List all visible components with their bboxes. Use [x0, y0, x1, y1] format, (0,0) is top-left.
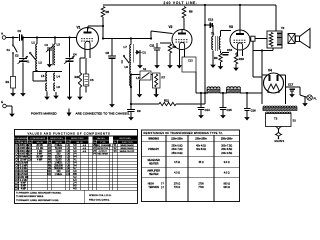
pilot lamp PL: [307, 95, 317, 101]
label chassis note right: [76, 111, 131, 115]
resistor R4: [75, 73, 82, 88]
wire V4 right vertical: [285, 75, 287, 104]
inductor L5b: [46, 83, 47, 91]
wire S1 to R1: [12, 54, 14, 77]
svg-text:D1: D1: [143, 51, 147, 55]
wire C2 to ground: [22, 63, 24, 90]
node L7 top: [130, 37, 132, 39]
transformer T3 secondary windings: [263, 106, 297, 107]
wire coil common bus: [33, 71, 62, 73]
wire C3 bottom lead: [49, 50, 51, 63]
capacitor C9: [127, 109, 141, 113]
svg-text:L7: L7: [124, 45, 128, 49]
svg-text:RESISTORS: RESISTORS: [71, 138, 84, 140]
node C4 tap: [68, 36, 70, 38]
svg-text:RESISTORS: RESISTORS: [50, 138, 63, 140]
svg-text:1 MEG.: 1 MEG.: [55, 174, 63, 176]
svg-text:8 MF: 8 MF: [37, 154, 43, 156]
svg-text:1 MEG.: 1 MEG.: [55, 162, 63, 164]
svg-text:1 MF: 1 MF: [37, 151, 43, 153]
svg-text:ARE CONNECTED TO THE CHASSIS.: ARE CONNECTED TO THE CHASSIS.: [76, 111, 131, 115]
valve V3: [229, 25, 250, 56]
svg-text:9.0 Ω: 9.0 Ω: [224, 161, 230, 164]
svg-text:230v 6.0Ω: 230v 6.0Ω: [172, 145, 183, 148]
svg-text:T1 PRIMARY 1,500Ω. SECONDARY: T1 PRIMARY 1,500Ω. SECONDARY 60,000Ω.: [16, 192, 62, 195]
wire L1 top lead: [36, 38, 38, 45]
wire choke bus left: [196, 92, 208, 94]
inductor L6 osc: [130, 76, 140, 86]
wire aerial to C1: [6, 37, 19, 39]
svg-text:C2: C2: [15, 54, 19, 58]
choke L9: [207, 87, 220, 93]
terminal A: [1, 32, 6, 40]
transformer T1 core: [211, 32, 217, 52]
wire V1 cathode to R4: [80, 57, 85, 59]
wire R10 stem2: [235, 53, 237, 55]
svg-text:T2: T2: [281, 26, 285, 30]
wire rail to smoothing: [204, 5, 206, 104]
svg-text:5,000: 5,000: [56, 160, 63, 162]
svg-text:250,000: 250,000: [54, 165, 63, 167]
svg-text:230v 8.5Ω: 230v 8.5Ω: [221, 148, 232, 151]
wire T1 sec bottom: [220, 51, 222, 54]
svg-text:HEATER: HEATER: [149, 173, 159, 176]
svg-text:FIELD COIL 5,000 Ω.: FIELD COIL 5,000 Ω.: [89, 199, 110, 201]
capacitor C15 electrolytic: [220, 108, 233, 113]
wire R6 to V2: [183, 18, 185, 30]
ground below L5: [44, 92, 50, 101]
wire R5 to V1 anode node: [102, 17, 104, 39]
svg-text:50 MF: 50 MF: [36, 157, 43, 159]
wire coil loop left: [32, 72, 34, 82]
table resistances of transformer windings: [142, 130, 240, 202]
ground below R8: [167, 62, 173, 69]
capacitor C2 tuning: [15, 54, 28, 64]
svg-text:HIGH: HIGH: [148, 182, 154, 185]
svg-text:4.5 Ω: 4.5 Ω: [174, 161, 180, 164]
wire choke link: [220, 92, 227, 94]
chassis note ground glyph: [67, 109, 72, 117]
capacitor C17: [288, 83, 295, 92]
trimmer capacitor C3: [45, 43, 54, 52]
svg-text:220v-230v: 220v-230v: [171, 138, 183, 141]
svg-text:T3 PRIMARY 1,050Ω. SECONDARY: T3 PRIMARY 1,050Ω. SECONDARY 0.15Ω.: [16, 199, 59, 202]
label T2: [281, 26, 285, 30]
switch S1: [7, 38, 18, 55]
svg-text:L6: L6: [57, 85, 61, 89]
switch S2: [140, 67, 151, 80]
terminal E: [1, 100, 6, 108]
resistor R11: [159, 98, 176, 105]
ground below C3: [47, 63, 53, 68]
capacitor C16 electrolytic: [244, 109, 256, 113]
svg-text:C5: C5: [106, 51, 110, 55]
svg-text:WAVE RANGE: WAVE RANGE: [120, 147, 134, 150]
transformer T1 primary: [212, 37, 213, 50]
wire C6 bottom: [85, 86, 87, 93]
ground below C14: [198, 113, 204, 119]
resistor R6: [182, 7, 193, 19]
wire C4 to ground: [69, 63, 71, 93]
node C15: [222, 92, 224, 94]
svg-text:C15: C15: [227, 108, 233, 112]
node V1 anode: [102, 37, 104, 39]
node T2 loop V4 feed: [261, 49, 263, 51]
wire V3 grid side: [255, 38, 259, 40]
wire V4 top right: [281, 74, 286, 76]
wire HT to T1: [205, 24, 213, 26]
wire 240V supply rail: [103, 4, 276, 6]
svg-text:S1: S1: [27, 61, 31, 64]
ground below C2: [20, 89, 26, 97]
inductor L8: [125, 64, 132, 74]
ground below R10: [233, 64, 239, 71]
svg-text:R11: R11: [164, 98, 169, 102]
svg-text:8 MF: 8 MF: [21, 186, 27, 188]
wire coil loop bottom: [33, 80, 47, 82]
ground T1 secondary: [218, 63, 224, 70]
switch wave-change S2a: [122, 55, 130, 63]
loudspeaker driver: [288, 34, 295, 44]
svg-text:50,000: 50,000: [55, 148, 63, 150]
capacitor C11: [150, 44, 161, 51]
node L1 top: [36, 36, 38, 38]
wire T1 primary top: [212, 25, 214, 37]
wire V3 grid to T2: [255, 38, 267, 40]
svg-text:0.1 MF: 0.1 MF: [20, 168, 28, 170]
capacitor C5: [106, 51, 117, 58]
svg-text:0.01 MF: 0.01 MF: [19, 171, 28, 173]
svg-text:CONDENSERS: CONDENSERS: [14, 138, 30, 140]
transformer T1 secondary: [219, 37, 220, 50]
switch wave-change contact L1: [27, 52, 36, 63]
svg-text:C16: C16: [15, 188, 20, 191]
ground below C4: [67, 93, 73, 101]
grid cap V3: [251, 36, 255, 41]
svg-text:R7: R7: [162, 76, 166, 80]
svg-text:VALVES: VALVES: [97, 137, 106, 140]
wire V3 grid drop: [252, 41, 254, 77]
node R5 anode: [102, 25, 104, 27]
svg-text:S3: S3: [293, 119, 297, 123]
svg-text:VALUES AND FUNCTIONS OF COMPON: VALUES AND FUNCTIONS OF COMPONENTS: [27, 132, 110, 136]
svg-text:V3: V3: [229, 25, 233, 29]
svg-text:L3: L3: [57, 43, 61, 47]
svg-text:C13: C13: [188, 60, 193, 63]
svg-text:R10: R10: [239, 57, 245, 61]
wire C13 to bus: [195, 72, 197, 93]
resistor R10: [234, 55, 244, 64]
ground below R7: [153, 89, 159, 98]
svg-text:C16: C16: [251, 109, 257, 113]
svg-text:A-B: A-B: [83, 147, 87, 150]
svg-text:20,000: 20,000: [55, 157, 63, 159]
wire AVC bus right: [176, 103, 205, 105]
node C14: [200, 92, 202, 94]
ground below R1: [10, 88, 16, 97]
wire R7 top: [151, 74, 153, 76]
ground below S2: [137, 89, 143, 98]
capacitor C14 electrolytic: [198, 108, 211, 113]
transformer T2 primary winding: [269, 33, 273, 47]
ground below lamp: [302, 100, 308, 107]
wire V2 grid left: [160, 42, 171, 44]
capacitor C4 tuning: [64, 53, 77, 64]
ground T1 primary: [210, 61, 216, 69]
wire lamp feed: [300, 95, 307, 97]
svg-text:A-B: A-B: [83, 150, 87, 153]
wire HT out: [286, 86, 301, 88]
wire sec bottom link: [220, 61, 222, 64]
wire T1 sec to V3 grid: [221, 30, 232, 32]
svg-text:4 MF: 4 MF: [37, 160, 43, 162]
wire S2 ground stem: [139, 80, 141, 89]
ground below C16: [244, 114, 250, 121]
wire R10 link: [236, 52, 237, 54]
mains twisted pair: [276, 127, 282, 140]
wire V1 anode top: [87, 26, 89, 30]
wire IF to V2 grid riser: [150, 31, 152, 39]
choke L10 speaker field: [227, 87, 241, 93]
svg-text:{ 1: { 1: [161, 182, 164, 185]
capacitor C1: [18, 29, 22, 41]
svg-text:C11: C11: [150, 44, 155, 48]
valve V1: [77, 26, 99, 59]
wire R4 to ground: [79, 88, 81, 93]
label chassis note left: [31, 111, 57, 115]
svg-text:C12: C12: [208, 18, 214, 22]
svg-text:E: E: [1, 100, 3, 104]
svg-text:R1: R1: [6, 80, 10, 84]
wire L7 top lead: [130, 39, 132, 45]
svg-text:C6: C6: [90, 78, 94, 82]
svg-text:S1: S1: [7, 48, 11, 52]
svg-text:45 Ω: 45 Ω: [198, 161, 203, 164]
svg-text:WINDING: WINDING: [148, 138, 159, 141]
wire T2 loop up: [272, 48, 274, 51]
svg-text:DETECTOR: DETECTOR: [97, 148, 109, 150]
wire AVC bus: [131, 103, 159, 105]
svg-text:L5: L5: [136, 76, 140, 80]
svg-text:770 Ω: 770 Ω: [174, 186, 181, 189]
wire R8 ground stem: [169, 53, 171, 62]
node AVC C9: [130, 103, 132, 105]
wire C5 drop: [111, 39, 113, 56]
svg-text:MAINS ON-OFF: MAINS ON-OFF: [120, 150, 135, 153]
svg-text:2 MEG.: 2 MEG.: [55, 145, 63, 147]
wire C15 stem: [222, 93, 224, 107]
svg-text:A-B: A-B: [83, 144, 87, 147]
node HT junction: [204, 24, 206, 26]
node osc coil bottom: [130, 86, 132, 88]
transformer T3 primary box: [266, 114, 297, 127]
svg-text:0.1 MF: 0.1 MF: [36, 148, 44, 150]
svg-text:R6: R6: [189, 10, 193, 14]
ground below C15: [220, 113, 226, 119]
svg-text:A: A: [1, 32, 3, 36]
wire C6 top: [85, 58, 87, 74]
svg-text:SWITCHES: SWITCHES: [119, 138, 131, 140]
wire T2 loop bottom: [253, 50, 273, 52]
svg-text:C10: C10: [227, 48, 233, 52]
resistor R7: [153, 73, 166, 88]
wire L3 top lead: [54, 38, 56, 45]
svg-text:240 VOLT LINE.: 240 VOLT LINE.: [164, 1, 198, 5]
svg-text:PL: PL: [314, 97, 318, 101]
capacitor C6 electrolytic: [84, 74, 94, 86]
svg-text:0.01 MF: 0.01 MF: [19, 162, 28, 164]
arrow below D1: [137, 62, 143, 69]
node choke bus a: [204, 92, 206, 94]
ground below C11: [154, 62, 160, 69]
svg-text:V1: V1: [77, 26, 81, 30]
svg-text:{ 2: { 2: [161, 186, 164, 189]
svg-text:R9: R9: [214, 56, 218, 60]
svg-text:L2: L2: [39, 61, 43, 65]
wire C9 stem: [130, 104, 132, 110]
wire C15 lower: [222, 110, 224, 113]
svg-text:240v 9.5Ω: 240v 9.5Ω: [221, 152, 232, 155]
wire V4 top left: [262, 74, 266, 76]
wire R10 top: [236, 50, 238, 53]
wire to pilot lamp: [299, 87, 301, 95]
wire lamp ground stem: [304, 96, 306, 100]
svg-text:T3: T3: [274, 117, 278, 121]
resistor R1: [6, 76, 16, 88]
svg-text:R5: R5: [106, 10, 110, 14]
svg-text:HEATER: HEATER: [149, 163, 159, 166]
svg-text:VALUE: VALUE: [36, 141, 43, 144]
svg-text:VALUE: VALUE: [55, 141, 62, 144]
capacitor C10: [222, 48, 233, 55]
svg-text:8 MF: 8 MF: [21, 183, 27, 185]
node rail V3 anode: [239, 4, 241, 6]
svg-text:230v-250v: 230v-250v: [195, 138, 207, 141]
wire T1 pri bottom: [212, 51, 214, 61]
label 240 VOLT LINE: [164, 1, 198, 5]
svg-text:WAVE RANGE: WAVE RANGE: [120, 144, 134, 147]
svg-text:0.002 MF: 0.002 MF: [18, 177, 28, 179]
svg-text:R11: R11: [47, 173, 52, 176]
wire earth terminal: [6, 105, 12, 107]
svg-text:OUTPUT: OUTPUT: [99, 151, 108, 153]
wire T1 sec top: [220, 31, 222, 37]
valve V4 rectifier: [264, 69, 284, 94]
svg-text:V2: V2: [169, 25, 173, 29]
svg-text:0.1 MF: 0.1 MF: [20, 165, 28, 167]
svg-text:4.0 Ω: 4.0 Ω: [224, 172, 230, 175]
label MAINS: [275, 139, 285, 143]
wire rail to T2: [275, 5, 277, 31]
svg-text:L8: L8: [125, 65, 129, 69]
inductor L3: [53, 43, 61, 66]
svg-text:C14: C14: [205, 108, 211, 112]
node C16: [246, 92, 248, 94]
svg-text:RECTIFIER: RECTIFIER: [97, 154, 108, 156]
svg-text:45v 4.0Ω: 45v 4.0Ω: [196, 145, 206, 148]
wire V1 anode to R5 node: [88, 25, 103, 27]
wire C11 ground stem: [156, 50, 158, 62]
svg-text:7700: 7700: [198, 186, 204, 189]
svg-text:20 MF: 20 MF: [36, 145, 43, 147]
svg-text:CONDENSERS: CONDENSERS: [30, 138, 46, 140]
svg-text:SPEECH COIL 1.15 Ω.: SPEECH COIL 1.15 Ω.: [89, 195, 112, 197]
ground below C17: [289, 93, 295, 98]
wire grid drop link: [253, 76, 262, 78]
wire C16 lower: [246, 111, 248, 115]
wire coil bottom branch: [131, 74, 140, 76]
wire C14 stem: [200, 93, 202, 107]
svg-text:C3: C3: [45, 43, 49, 47]
inductor L4: [54, 73, 61, 81]
wire choke bus right: [240, 92, 262, 94]
svg-text:PRIMARY: PRIMARY: [148, 148, 159, 151]
svg-text:500,000: 500,000: [54, 168, 63, 170]
inductor L5: [41, 73, 47, 81]
wire to C4: [69, 38, 71, 58]
svg-text:C16: C16: [28, 159, 33, 162]
svg-text:POINTS MARKED: POINTS MARKED: [31, 111, 57, 115]
svg-text:VALUE: VALUE: [76, 141, 83, 144]
ground below L6: [53, 92, 59, 99]
svg-text:T2 SEE ADJOINING TABLE.: T2 SEE ADJOINING TABLE.: [16, 195, 44, 198]
transformer T3 core: [263, 108, 297, 111]
svg-text:1,000: 1,000: [56, 151, 63, 153]
wire L2 bottom: [36, 70, 38, 72]
wire R4 top lead: [79, 58, 81, 73]
node IF bus end: [150, 37, 152, 39]
svg-text:L11: L11: [66, 173, 70, 176]
svg-text:L4: L4: [57, 75, 61, 79]
svg-text:260v 7.5Ω: 260v 7.5Ω: [221, 145, 232, 148]
node coil bottom: [130, 73, 132, 75]
svg-text:V4: V4: [268, 69, 272, 73]
svg-text:250v-260v: 250v-260v: [221, 138, 233, 141]
wire C11 stem: [156, 43, 158, 48]
svg-text:C9: C9: [137, 109, 141, 113]
wire V4 left vertical: [261, 51, 263, 105]
svg-text:FREQ. CHANGER: FREQ. CHANGER: [94, 144, 111, 147]
svg-text:250v 8.0Ω: 250v 8.0Ω: [172, 152, 183, 155]
node L3 top: [54, 36, 56, 38]
table values and functions of components: [14, 130, 138, 204]
inductor L1: [32, 41, 38, 57]
svg-text:MAINS: MAINS: [275, 139, 285, 143]
svg-text:4.0 Ω: 4.0 Ω: [174, 172, 180, 175]
diode D1: [135, 50, 146, 55]
transformer T2: [267, 31, 282, 48]
valve V2: [169, 25, 193, 57]
wire V2 cathode stem: [178, 57, 180, 62]
svg-text:0.1 MF: 0.1 MF: [20, 180, 28, 182]
svg-text:2700: 2700: [198, 182, 204, 185]
svg-text:4 MF: 4 MF: [21, 189, 27, 191]
inductor L6: [54, 83, 61, 91]
ground below C5: [109, 101, 115, 108]
svg-text:960 Ω: 960 Ω: [223, 182, 230, 185]
node S1 tap: [12, 36, 14, 38]
resistor R8: [168, 44, 176, 53]
svg-text:L5: L5: [41, 74, 45, 78]
svg-text:R4: R4: [75, 75, 79, 79]
wire anode bus: [103, 38, 151, 40]
wire C17 lower: [291, 91, 293, 92]
svg-text:L1: L1: [32, 41, 36, 45]
svg-text:C4: C4: [73, 53, 77, 57]
svg-text:240v 7.0Ω: 240v 7.0Ω: [172, 148, 183, 151]
inductor L2: [36, 58, 43, 71]
svg-text:0.25 MF: 0.25 MF: [19, 174, 28, 176]
